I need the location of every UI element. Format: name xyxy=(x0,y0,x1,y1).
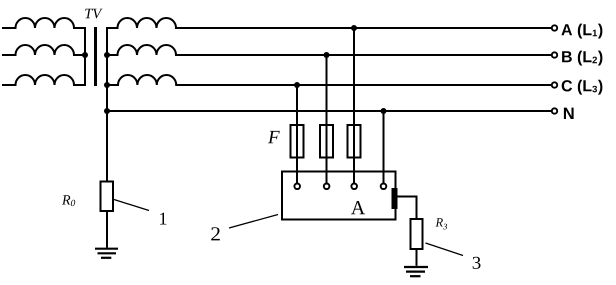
label R3 xyxy=(435,218,447,229)
fuse F phase C xyxy=(291,125,304,158)
node dot secondary N junction xyxy=(104,108,110,114)
wire R3 to ground xyxy=(416,249,418,266)
label 1 xyxy=(160,213,166,225)
terminal circle line C xyxy=(552,82,557,87)
wire primary neutral bus xyxy=(84,28,86,85)
ground symbol under R3 xyxy=(404,267,428,276)
node dot primary star point xyxy=(82,52,88,58)
transformer TV core bar xyxy=(94,29,97,85)
label 3 xyxy=(473,257,481,269)
node dot line N tap xyxy=(381,108,387,114)
wire drop from line B to fuse xyxy=(326,55,328,183)
leader line to label 3 xyxy=(426,243,464,256)
node dot line C tap xyxy=(294,82,300,88)
terminal circle line A xyxy=(552,25,557,30)
label TV xyxy=(85,9,102,19)
wire from PE pad to R3 xyxy=(397,197,417,219)
transformer TV secondary winding phase C / line C xyxy=(107,75,553,85)
fuse F phase A xyxy=(348,125,361,158)
wire drop from line N xyxy=(383,111,385,183)
node dot line B tap xyxy=(324,52,330,58)
label 2 xyxy=(211,227,220,240)
label B (L2) xyxy=(562,51,602,66)
wire drop from line A to fuse xyxy=(353,28,355,183)
terminal circle line B xyxy=(552,52,557,57)
wire R0 to ground xyxy=(106,212,108,248)
wire secondary star point bus xyxy=(106,28,108,181)
resistor R3 body xyxy=(411,219,423,249)
label R0 xyxy=(62,195,75,206)
terminal circle in box, phase A xyxy=(351,184,357,190)
node dot secondary C junction xyxy=(104,82,110,88)
node dot line A tap xyxy=(351,25,357,31)
transformer TV primary winding phase C xyxy=(3,75,85,85)
label N xyxy=(564,108,574,119)
transformer TV primary winding phase A xyxy=(3,18,85,28)
label C (L3) xyxy=(562,80,603,95)
transformer TV secondary winding phase B / line B xyxy=(107,45,553,55)
PE terminal black pad on box xyxy=(392,188,398,209)
fuse F phase B xyxy=(320,125,333,158)
ground symbol under R0 xyxy=(95,249,118,258)
leader line to label 2 xyxy=(229,215,278,229)
terminal circle in box, phase B xyxy=(324,184,330,190)
transformer TV secondary winding phase A / line A xyxy=(107,18,553,28)
label A of apparatus box xyxy=(351,201,365,214)
resistor R0 body xyxy=(101,182,114,212)
leader line to label 1 xyxy=(114,200,149,211)
label A (L1) xyxy=(561,24,602,39)
terminal circle in box, phase C xyxy=(294,184,300,190)
apparatus box A (2) xyxy=(282,172,396,220)
transformer TV primary winding phase B xyxy=(3,45,85,55)
node dot secondary B junction xyxy=(104,52,110,58)
label F xyxy=(268,131,280,143)
terminal circle in box, N xyxy=(381,184,387,190)
terminal circle line N xyxy=(552,108,557,113)
wire line N xyxy=(107,110,553,112)
wire drop from line C to fuse xyxy=(296,85,298,183)
